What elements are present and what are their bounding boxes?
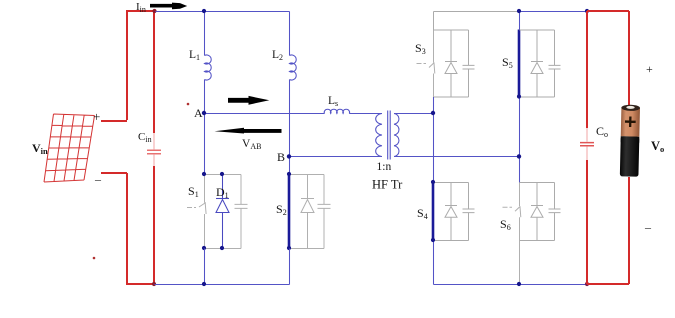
wire gray bridge top rail	[434, 11, 520, 13]
svg-text:A: A	[194, 106, 203, 120]
capacitor Cin plates	[147, 150, 161, 154]
label VAB	[242, 138, 261, 151]
diode S5	[531, 30, 543, 97]
wire bridge leg1 middle	[433, 97, 435, 183]
label Co	[596, 124, 608, 139]
wire gray S3 stub	[433, 12, 435, 31]
diode S6	[531, 183, 543, 241]
wire red output bottom	[587, 283, 629, 285]
transformer core	[388, 111, 391, 160]
svg-text:Vo: Vo	[651, 139, 664, 154]
wire S6 to bottom rail	[519, 241, 521, 285]
capacitor Co column lower	[586, 160, 588, 284]
diode D1	[216, 175, 229, 249]
wire L1 column upper	[204, 12, 206, 56]
svg-text:S2: S2	[276, 202, 287, 217]
stray red dot bottom left	[93, 257, 96, 260]
diode S3	[445, 30, 457, 97]
label 1:n	[377, 161, 392, 173]
label D1	[216, 185, 229, 200]
arrow current node A	[228, 96, 269, 105]
svg-text:S6: S6	[500, 217, 511, 232]
node S2 box bottom	[287, 246, 291, 250]
node red top junction	[152, 9, 156, 13]
switch S3	[417, 30, 435, 97]
node red bottom junction	[152, 282, 156, 286]
switch S6	[503, 183, 521, 241]
node bottom rail S1	[202, 282, 206, 286]
svg-text:Co: Co	[596, 124, 608, 139]
wire secondary bottom	[394, 156, 520, 158]
transformer secondary winding	[394, 114, 399, 157]
label L1	[189, 49, 200, 62]
label Cin	[138, 131, 152, 144]
diode S2	[301, 175, 314, 249]
node S4 box top	[431, 180, 435, 184]
svg-text:VAB: VAB	[242, 138, 261, 151]
wire red left vertical lower	[126, 173, 128, 284]
label S5	[502, 55, 513, 70]
node bottom rail output	[585, 282, 589, 286]
arrow Iin	[150, 3, 187, 10]
node secondary top leg1	[431, 111, 435, 115]
label L2	[272, 49, 283, 62]
wire S2 to bottom rail	[289, 249, 291, 285]
wire red battery bottom	[628, 177, 630, 284]
svg-text:S3: S3	[415, 41, 426, 56]
label Vin	[32, 141, 48, 156]
wire L2 column upper	[289, 12, 291, 56]
output plus label	[646, 62, 653, 76]
wire secondary top	[394, 113, 434, 115]
svg-text:Cin: Cin	[138, 131, 152, 144]
node secondary bottom leg2	[517, 154, 521, 158]
node L1 top	[202, 9, 206, 13]
snubber capacitor S1	[235, 175, 248, 249]
label S6	[500, 217, 511, 232]
wire blue top rail right	[520, 11, 588, 13]
wire blue top rail	[156, 11, 290, 13]
switch S5 closed	[518, 30, 521, 97]
svg-text:S5: S5	[502, 55, 513, 70]
stray red dot near A	[187, 103, 190, 106]
node S1 box bottom left	[202, 246, 206, 250]
wire red output top	[587, 10, 629, 12]
wire bridge leg2 middle	[519, 97, 521, 183]
svg-text:Ls: Ls	[328, 95, 338, 108]
node S5 top rail	[517, 9, 521, 13]
svg-text:HF Tr: HF Tr	[372, 178, 403, 192]
snubber capacitor S6	[549, 183, 561, 241]
wire red plus stub	[101, 120, 127, 122]
switch S4 closed	[432, 182, 435, 240]
node S1 box top right	[220, 172, 224, 176]
svg-text:1:n: 1:n	[377, 161, 392, 173]
svg-text:Vin: Vin	[32, 141, 48, 156]
node bottom rail S6	[517, 282, 521, 286]
capacitor Co thin leads	[586, 128, 588, 160]
arrow VAB pointing left	[215, 128, 282, 134]
capacitor Cin thin leads	[153, 133, 155, 166]
node S1 box top left	[202, 172, 206, 176]
snubber capacitor S2	[318, 175, 331, 249]
label Iin	[136, 1, 146, 14]
node S4 box bottom	[431, 238, 435, 242]
inductor L1	[205, 55, 212, 80]
svg-text:D1: D1	[216, 185, 229, 200]
label Vo	[651, 139, 664, 154]
label S4	[417, 206, 428, 221]
node S2 box top	[287, 172, 291, 176]
wire blue bottom rail right	[434, 284, 588, 286]
wire red battery top	[628, 11, 630, 107]
wire S5 stub	[519, 12, 521, 31]
wire B to S2 box	[289, 157, 291, 175]
wire blue bottom rail left	[155, 284, 290, 286]
S2 box rails	[290, 175, 325, 249]
wire node A horizontal	[205, 113, 325, 115]
svg-text:–: –	[644, 220, 652, 234]
svg-text:S1: S1	[188, 184, 199, 199]
wire L1 column lower	[204, 80, 206, 114]
panel plus terminal	[93, 109, 100, 124]
solar panel PV array	[44, 114, 95, 182]
label HF Tr	[372, 178, 403, 192]
label node A	[194, 106, 203, 120]
label node B	[277, 150, 285, 164]
switch S2 closed	[288, 174, 291, 248]
node S1 box bottom right	[220, 246, 224, 250]
svg-text:+: +	[646, 62, 653, 76]
transformer primary winding	[376, 114, 382, 157]
node B	[287, 154, 291, 158]
svg-text:+: +	[93, 109, 100, 124]
capacitor Co column upper	[586, 11, 588, 128]
label Ls	[328, 95, 338, 108]
snubber capacitor S5	[549, 30, 561, 97]
node top rail output	[585, 9, 589, 13]
panel minus terminal	[94, 172, 102, 186]
wire L2 column lower	[289, 80, 291, 157]
wire A to S1 box	[204, 114, 206, 175]
S3 box rails	[434, 30, 469, 97]
capacitor Cin column lower	[153, 166, 155, 284]
S4 box rails	[434, 183, 469, 241]
inductor L2	[290, 55, 297, 80]
svg-text:L2: L2	[272, 49, 283, 62]
wire node B horizontal	[290, 156, 383, 158]
inductor Ls	[324, 109, 349, 113]
label S3	[415, 41, 426, 56]
switch S1	[187, 175, 206, 249]
svg-text:–: –	[94, 172, 102, 186]
wire S4 to bottom rail	[433, 241, 435, 285]
svg-text:L1: L1	[189, 49, 200, 62]
diode S4	[445, 183, 457, 241]
svg-text:B: B	[277, 150, 285, 164]
S6 box rails	[520, 183, 555, 241]
snubber capacitor S3	[463, 30, 475, 97]
label S1	[188, 184, 199, 199]
wire red bottom segment	[126, 283, 155, 285]
wire red top segment	[126, 10, 156, 12]
output minus label	[644, 220, 652, 234]
S1 box rails	[205, 175, 242, 249]
node A	[202, 111, 206, 115]
node S5 box bottom	[517, 94, 521, 98]
wire Ls to transformer	[349, 113, 382, 115]
svg-text:S4: S4	[417, 206, 428, 221]
S5 box rails	[520, 30, 555, 97]
wire red left vertical upper	[126, 11, 128, 120]
wire red minus stub	[101, 172, 127, 174]
battery Vo	[620, 105, 640, 177]
wire S1 to bottom rail	[204, 249, 206, 285]
svg-text:Iin: Iin	[136, 1, 146, 14]
capacitor Cin column upper	[153, 11, 155, 133]
capacitor Co plates	[580, 143, 594, 146]
label S2	[276, 202, 287, 217]
snubber capacitor S4	[463, 183, 475, 241]
